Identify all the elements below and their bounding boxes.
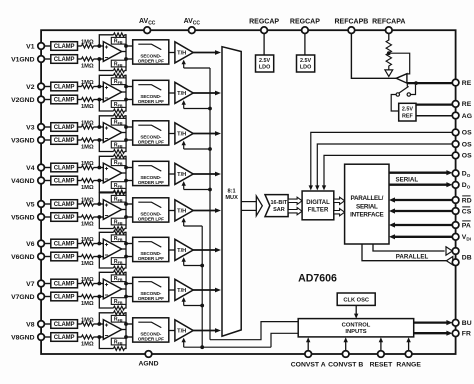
resistor RFB top ch1 bbox=[111, 33, 126, 45]
svg-text:RE: RE bbox=[462, 101, 472, 108]
node feedback bottom out ch5 bbox=[124, 215, 128, 219]
svg-text:CLAMP: CLAMP bbox=[54, 85, 75, 91]
resistor RFB bottom ch2 bbox=[111, 101, 126, 113]
svg-text:REFCAPA: REFCAPA bbox=[372, 19, 405, 26]
node amp input + ch4 bbox=[97, 166, 101, 170]
wire feedback top ch7 bbox=[99, 272, 126, 283]
wire amp output ch4 bbox=[122, 167, 126, 182]
resistor 1Mohm V2 bbox=[78, 80, 104, 88]
resistor 1Mohm V5 bbox=[78, 198, 104, 206]
wire T/H to MUX ch4 bbox=[193, 172, 221, 177]
wire feedback top ch3 bbox=[99, 116, 126, 127]
node feedback top out ch8 bbox=[124, 322, 128, 326]
svg-text:1MΩ: 1MΩ bbox=[81, 63, 94, 69]
wire T/H to MUX ch3 bbox=[193, 131, 221, 136]
svg-text:CS: CS bbox=[462, 208, 472, 215]
wire bus A to control inputs bbox=[210, 322, 298, 340]
op-amp PGA ch7 bbox=[103, 279, 121, 299]
svg-text:2.5V: 2.5V bbox=[300, 58, 311, 64]
pin V2 bbox=[26, 83, 44, 91]
wire V8GND to clamp bbox=[44, 336, 51, 338]
wire T/H control arrow ch2 bbox=[182, 100, 186, 108]
pin AGND right bbox=[452, 112, 472, 120]
svg-text:CLAMP: CLAMP bbox=[54, 282, 75, 288]
svg-text:1MΩ: 1MΩ bbox=[81, 144, 94, 150]
node amp input - ch7 bbox=[97, 295, 101, 299]
wire MUX to SAR bus bbox=[241, 202, 256, 211]
svg-text:CLAMP: CLAMP bbox=[54, 179, 75, 185]
wire CLK OSC to control bbox=[354, 305, 358, 318]
svg-text:1MΩ: 1MΩ bbox=[81, 301, 94, 307]
svg-text:V3: V3 bbox=[26, 124, 35, 131]
node bus B tap ch6 bbox=[200, 264, 204, 268]
svg-text:CONVST A: CONVST A bbox=[291, 362, 326, 369]
resistor RFB bottom ch3 bbox=[111, 141, 126, 153]
resistor 1Mohm V4GND bbox=[78, 179, 104, 191]
node amp input + ch2 bbox=[97, 85, 101, 89]
svg-text:CLAMP: CLAMP bbox=[54, 57, 75, 63]
pin AVCC 1 bbox=[139, 18, 156, 34]
resistor ref divider bbox=[386, 40, 391, 66]
resistor 1Mohm V3 bbox=[78, 121, 104, 129]
resistor RFB top ch2 bbox=[111, 73, 126, 85]
bus arrow SAR to digital filter 2 bbox=[288, 208, 302, 215]
clamp V3 bbox=[51, 123, 78, 132]
svg-text:1MΩ: 1MΩ bbox=[81, 80, 94, 86]
wire tap ch5 to bus B bbox=[184, 225, 203, 227]
svg-text:T/H: T/H bbox=[177, 288, 186, 294]
resistor 1Mohm V1 bbox=[78, 40, 104, 48]
wire T/H control arrow ch3 bbox=[182, 141, 186, 149]
svg-text:V6GND: V6GND bbox=[11, 254, 35, 261]
wire feedback bottom ch3 bbox=[99, 140, 126, 152]
svg-text:ORDER LPF: ORDER LPF bbox=[138, 296, 164, 301]
node feedback top out ch7 bbox=[124, 282, 128, 286]
wire amp to LPF ch1 bbox=[126, 46, 133, 59]
node bus A tap ch4 bbox=[208, 188, 212, 192]
op-amp PGA ch4 bbox=[103, 163, 121, 183]
pin RESET bbox=[370, 351, 394, 369]
wire T/H control arrow ch4 bbox=[182, 181, 186, 189]
resistor RFB top ch3 bbox=[111, 114, 126, 126]
svg-text:T/H: T/H bbox=[177, 51, 186, 57]
svg-text:V2: V2 bbox=[26, 84, 35, 91]
bus arrow into SAR bbox=[256, 196, 262, 216]
wire feedback bottom ch8 bbox=[99, 337, 126, 349]
node feedback top out ch6 bbox=[124, 242, 128, 246]
clamp V7 bbox=[51, 279, 78, 288]
resistor RFB top ch6 bbox=[111, 230, 126, 242]
svg-text:DIGITAL: DIGITAL bbox=[306, 200, 330, 206]
svg-text:AGND: AGND bbox=[138, 361, 158, 368]
clamp V5GND bbox=[51, 213, 78, 222]
svg-text:FR: FR bbox=[462, 331, 471, 338]
pin V2GND bbox=[11, 96, 44, 104]
wire tap ch8 / bus B bottom run bbox=[184, 346, 271, 348]
resistor RFB bottom ch8 bbox=[111, 338, 126, 350]
wire amp to LPF ch4 bbox=[126, 168, 133, 181]
svg-text:ORDER LPF: ORDER LPF bbox=[138, 99, 164, 104]
wire parallel in bbox=[362, 244, 456, 261]
svg-text:ORDER LPF: ORDER LPF bbox=[138, 140, 164, 145]
pin V6 bbox=[26, 240, 44, 248]
node bus B tap ch7 bbox=[200, 304, 204, 308]
wire BUSY arrow bbox=[414, 320, 453, 325]
wire V5 to clamp bbox=[44, 203, 51, 205]
clamp V2 bbox=[51, 82, 78, 91]
wire feedback top ch8 bbox=[99, 313, 126, 324]
op-amp ref buffer bbox=[396, 74, 407, 83]
svg-text:ORDER LPF: ORDER LPF bbox=[138, 180, 164, 185]
svg-text:REGCAP: REGCAP bbox=[290, 19, 320, 26]
svg-text:CLAMP: CLAMP bbox=[54, 242, 75, 248]
svg-text:SECOND-: SECOND- bbox=[140, 134, 161, 139]
svg-text:T/H: T/H bbox=[177, 209, 186, 215]
node bus A tap ch3 bbox=[208, 147, 212, 151]
node amp input + ch1 bbox=[97, 44, 101, 48]
clamp V1GND bbox=[51, 55, 78, 64]
resistor RFB top ch5 bbox=[111, 191, 126, 203]
node ref divider tap bbox=[387, 51, 391, 55]
wire LPF to T/H ch6 bbox=[169, 249, 175, 251]
resistor 1Mohm V6 bbox=[78, 237, 104, 245]
wire LPF to T/H ch7 bbox=[169, 289, 175, 291]
svg-text:OS: OS bbox=[462, 141, 472, 148]
clamp V2GND bbox=[51, 95, 78, 104]
wire V1GND to clamp bbox=[44, 58, 51, 60]
regulator LDO2 2.5V bbox=[297, 55, 315, 72]
clamp V4 bbox=[51, 163, 78, 172]
wire amp output ch2 bbox=[122, 86, 126, 101]
wire bus B bbox=[201, 226, 203, 347]
node feedback bottom out ch7 bbox=[124, 295, 128, 299]
wire V7 to clamp bbox=[44, 283, 51, 285]
svg-text:SECOND-: SECOND- bbox=[140, 211, 161, 216]
filter LPF ch1 bbox=[133, 40, 169, 64]
svg-text:T/H: T/H bbox=[177, 329, 186, 335]
svg-text:CLAMP: CLAMP bbox=[54, 255, 75, 261]
svg-text:V3GND: V3GND bbox=[11, 137, 35, 144]
wire amp to LPF ch7 bbox=[126, 284, 133, 297]
wire OS at y144.0 bbox=[315, 144, 453, 190]
wire V3GND to clamp bbox=[44, 139, 51, 141]
resistor RFB bottom ch4 bbox=[111, 182, 126, 194]
filter LPF ch4 bbox=[133, 161, 169, 185]
wire V2 to clamp bbox=[44, 86, 51, 88]
resistor RFB bottom ch1 bbox=[111, 60, 126, 72]
amp T/H ch7 bbox=[175, 279, 193, 300]
svg-text:PA: PA bbox=[462, 222, 471, 229]
resistor 1Mohm V8GND bbox=[78, 335, 104, 347]
svg-text:V8GND: V8GND bbox=[11, 334, 35, 341]
wire parallel out bbox=[373, 244, 445, 251]
wire REFCAPA down bbox=[388, 33, 390, 40]
wire tap ch1 to bus A bbox=[184, 67, 210, 69]
wire V7GND to clamp bbox=[44, 296, 51, 298]
svg-text:CLAMP: CLAMP bbox=[54, 202, 75, 208]
node amp input + ch6 bbox=[97, 242, 101, 246]
svg-text:RD: RD bbox=[462, 197, 472, 204]
wire CONVST A up arrow bbox=[306, 337, 310, 351]
filter LPF ch2 bbox=[133, 80, 169, 104]
wire feedback bottom ch6 bbox=[99, 257, 126, 269]
svg-text:CLAMP: CLAMP bbox=[54, 295, 75, 301]
wire tap ch7 to bus B bbox=[184, 305, 203, 307]
pin DOUTA bbox=[452, 170, 470, 178]
svg-text:SECOND-: SECOND- bbox=[140, 94, 161, 99]
wire V6 to clamp bbox=[44, 243, 51, 245]
wire CONVST B up arrow bbox=[344, 337, 348, 351]
pin V6GND bbox=[11, 253, 44, 261]
svg-text:SAR: SAR bbox=[273, 207, 285, 213]
pin BUSY bbox=[452, 320, 471, 328]
wire V1 to clamp bbox=[44, 45, 51, 47]
block CONTROL INPUTS bbox=[298, 319, 414, 337]
svg-text:ORDER LPF: ORDER LPF bbox=[138, 256, 164, 261]
wire amp output ch5 bbox=[122, 203, 126, 218]
wire REGCAP1 to LDO1 bbox=[263, 33, 265, 55]
node amp input + ch3 bbox=[97, 125, 101, 129]
resistor 1Mohm V7 bbox=[78, 277, 104, 285]
node amp input + ch7 bbox=[97, 282, 101, 286]
op-amp PGA ch1 bbox=[103, 42, 121, 62]
wire T/H to MUX ch6 bbox=[193, 248, 221, 253]
pin AGND bottom bbox=[138, 351, 158, 368]
svg-text:2.5V: 2.5V bbox=[402, 106, 413, 112]
pin CONVST A bbox=[291, 351, 326, 369]
svg-text:1MΩ: 1MΩ bbox=[81, 237, 94, 243]
wire REF box to AGND pin bbox=[416, 115, 453, 117]
pin RD bbox=[452, 196, 471, 204]
resistor RFB bottom ch7 bbox=[111, 298, 126, 310]
chip boundary bbox=[41, 30, 456, 354]
wire T/H control arrow ch8 bbox=[182, 338, 186, 348]
wire bus B to control inputs bbox=[271, 333, 298, 347]
clamp V1 bbox=[51, 42, 78, 51]
clamp V4GND bbox=[51, 176, 78, 185]
svg-text:CLAMP: CLAMP bbox=[54, 138, 75, 144]
wire RD arrow bbox=[389, 197, 452, 202]
wire T/H to MUX ch1 bbox=[193, 50, 221, 55]
svg-text:REF: REF bbox=[402, 113, 413, 119]
wire DOUTA serial arrow bbox=[389, 170, 452, 175]
wire T/H to MUX ch2 bbox=[193, 91, 221, 96]
svg-text:BU: BU bbox=[462, 320, 472, 327]
svg-text:CLAMP: CLAMP bbox=[54, 44, 75, 50]
amp T/H ch8 bbox=[175, 320, 193, 341]
bus arrow filter to interface 1 bbox=[334, 197, 345, 204]
svg-text:INTERFACE: INTERFACE bbox=[350, 212, 383, 219]
wire amp to LPF ch8 bbox=[126, 324, 133, 337]
wire amp output ch1 bbox=[122, 45, 126, 60]
adc 16-BIT SAR bbox=[265, 195, 288, 217]
svg-text:1MΩ: 1MΩ bbox=[81, 341, 94, 347]
wire amp output ch8 bbox=[122, 323, 126, 338]
bus arrow parallel in bbox=[446, 257, 452, 265]
wire amp output ch7 bbox=[122, 283, 126, 298]
switch ref select bbox=[396, 83, 415, 96]
svg-text:OS: OS bbox=[462, 153, 472, 160]
resistor RFB top ch8 bbox=[111, 311, 126, 323]
amp T/H ch3 bbox=[175, 123, 193, 144]
node amp input + ch8 bbox=[97, 322, 101, 326]
wire LPF to T/H ch1 bbox=[169, 52, 175, 54]
node amp input - ch2 bbox=[97, 98, 101, 102]
bus arrow parallel out bbox=[446, 247, 452, 255]
node feedback top out ch4 bbox=[124, 166, 128, 170]
wire bus A bbox=[209, 68, 211, 340]
wire LPF to T/H ch2 bbox=[169, 92, 175, 94]
wire feedback bottom ch2 bbox=[99, 100, 126, 112]
wire amp to LPF ch5 bbox=[126, 204, 133, 217]
pin V8 bbox=[26, 321, 44, 329]
svg-text:V4: V4 bbox=[26, 165, 35, 172]
pin REFIN/REFOUT bbox=[452, 101, 471, 109]
pin V3GND bbox=[11, 137, 44, 145]
pin V4GND bbox=[11, 177, 44, 185]
svg-text:SECOND-: SECOND- bbox=[140, 175, 161, 180]
wire T/H to MUX ch7 bbox=[193, 288, 221, 293]
pin RANGE bbox=[396, 351, 421, 369]
wire feedback top ch1 bbox=[99, 35, 126, 46]
svg-text:1MΩ: 1MΩ bbox=[81, 40, 94, 46]
pin REF SELECT bbox=[452, 79, 471, 87]
node amp input - ch3 bbox=[97, 138, 101, 142]
node amp input - ch8 bbox=[97, 335, 101, 339]
resistor 1Mohm V7GND bbox=[78, 295, 104, 307]
block DIGITAL FILTER bbox=[302, 191, 334, 220]
pin V8GND bbox=[11, 334, 44, 342]
wire LPF to T/H ch8 bbox=[169, 330, 175, 332]
filter LPF ch8 bbox=[133, 318, 169, 342]
block PARALLEL/SERIAL INTERFACE bbox=[345, 164, 389, 244]
wire V3 to clamp bbox=[44, 126, 51, 128]
node amp input + ch5 bbox=[97, 202, 101, 206]
bus arrow filter to interface 2 bbox=[334, 209, 345, 216]
wire T/H control arrow ch7 bbox=[182, 297, 186, 305]
clamp V6GND bbox=[51, 252, 78, 261]
wire V8 to clamp bbox=[44, 323, 51, 325]
node amp input - ch4 bbox=[97, 179, 101, 183]
wire feedback bottom ch7 bbox=[99, 297, 126, 309]
resistor 1Mohm V8 bbox=[78, 318, 104, 326]
wire V6GND to clamp bbox=[44, 256, 51, 258]
node bus B bottom bbox=[200, 345, 204, 349]
svg-text:DB: DB bbox=[462, 254, 472, 261]
svg-text:SECOND-: SECOND- bbox=[140, 251, 161, 256]
svg-text:1MΩ: 1MΩ bbox=[81, 121, 94, 127]
svg-text:V1: V1 bbox=[26, 43, 35, 50]
wire feedback bottom ch1 bbox=[99, 59, 126, 71]
svg-text:8:1: 8:1 bbox=[228, 188, 236, 194]
vref 2.5V REF bbox=[399, 103, 416, 121]
pin REFCAPA bbox=[372, 19, 405, 34]
svg-text:CLAMP: CLAMP bbox=[54, 215, 75, 221]
svg-text:V5: V5 bbox=[26, 201, 35, 208]
wire feedback bottom ch4 bbox=[99, 181, 126, 193]
op-amp PGA ch8 bbox=[103, 320, 121, 340]
arrow ref to wire bbox=[385, 66, 393, 77]
wire OS at y132.4 bbox=[309, 132, 453, 190]
svg-text:ORDER LPF: ORDER LPF bbox=[138, 59, 164, 64]
pin DB lower bbox=[452, 254, 471, 265]
svg-text:1MΩ: 1MΩ bbox=[81, 198, 94, 204]
svg-text:SERIAL: SERIAL bbox=[395, 177, 418, 184]
resistor RFB top ch4 bbox=[111, 154, 126, 166]
svg-text:REFCAPB: REFCAPB bbox=[334, 19, 368, 26]
amp T/H ch2 bbox=[175, 82, 193, 103]
svg-text:CLAMP: CLAMP bbox=[54, 166, 75, 172]
svg-text:V4GND: V4GND bbox=[11, 178, 35, 185]
svg-text:AG: AG bbox=[462, 113, 472, 120]
pin AVCC 2 bbox=[184, 18, 201, 34]
wire T/H control arrow ch5 bbox=[182, 218, 186, 226]
wire amp output ch6 bbox=[122, 243, 126, 258]
svg-text:RE: RE bbox=[462, 80, 472, 87]
svg-text:SECOND-: SECOND- bbox=[140, 53, 161, 58]
node bus A tap ch2 bbox=[208, 107, 212, 111]
node feedback top out ch3 bbox=[124, 125, 128, 129]
op-amp PGA ch5 bbox=[103, 200, 121, 220]
label PARALLEL bbox=[396, 253, 429, 260]
svg-text:CLAMP: CLAMP bbox=[54, 322, 75, 328]
pin V3 bbox=[26, 124, 44, 132]
pin OS1 bbox=[452, 141, 472, 149]
wire amp to LPF ch2 bbox=[126, 87, 133, 100]
svg-text:1MΩ: 1MΩ bbox=[81, 104, 94, 110]
svg-text:LDO: LDO bbox=[259, 65, 270, 71]
wire ref tap to buffer input bbox=[391, 53, 410, 74]
svg-text:AD7606: AD7606 bbox=[298, 273, 337, 285]
pin FRSTDATA bbox=[452, 330, 471, 338]
clamp V5 bbox=[51, 200, 78, 209]
node feedback bottom out ch8 bbox=[124, 335, 128, 339]
svg-text:V8: V8 bbox=[26, 321, 35, 328]
svg-text:MUX: MUX bbox=[225, 195, 238, 201]
pin PAR/SER SEL bbox=[452, 221, 471, 229]
wire LPF to T/H ch4 bbox=[169, 173, 175, 175]
wire V4GND to clamp bbox=[44, 180, 51, 182]
svg-text:RANGE: RANGE bbox=[396, 362, 421, 369]
resistor RFB bottom ch6 bbox=[111, 258, 126, 270]
label AD7606 bbox=[298, 273, 337, 285]
wire LPF to T/H ch3 bbox=[169, 133, 175, 135]
pin V7 bbox=[26, 280, 44, 288]
wire REFCAPB down bbox=[351, 33, 396, 78]
pin OS2 bbox=[452, 129, 472, 137]
resistor 1Mohm V5GND bbox=[78, 215, 104, 227]
oscillator CLK OSC bbox=[337, 293, 375, 305]
amp T/H ch5 bbox=[175, 200, 193, 221]
amp T/H ch4 bbox=[175, 163, 193, 184]
svg-text:1MΩ: 1MΩ bbox=[81, 221, 94, 227]
svg-text:INPUTS: INPUTS bbox=[345, 329, 366, 335]
svg-text:CONVST B: CONVST B bbox=[328, 362, 363, 369]
svg-text:CLAMP: CLAMP bbox=[54, 98, 75, 104]
svg-text:CONTROL: CONTROL bbox=[342, 322, 371, 328]
pin DOUTB bbox=[452, 182, 470, 190]
pin REGCAP 2 bbox=[290, 19, 320, 34]
clamp V7GND bbox=[51, 292, 78, 301]
wire feedback top ch5 bbox=[99, 193, 126, 204]
wire RANGE up arrow bbox=[406, 337, 410, 351]
wire FRSTDATA arrow bbox=[414, 331, 453, 336]
clamp V8GND bbox=[51, 333, 78, 342]
svg-text:CLAMP: CLAMP bbox=[54, 125, 75, 131]
wire T/H control arrow ch1 bbox=[182, 60, 186, 68]
svg-text:V6: V6 bbox=[26, 241, 35, 248]
bus arrow SAR to digital filter 1 bbox=[288, 197, 302, 204]
